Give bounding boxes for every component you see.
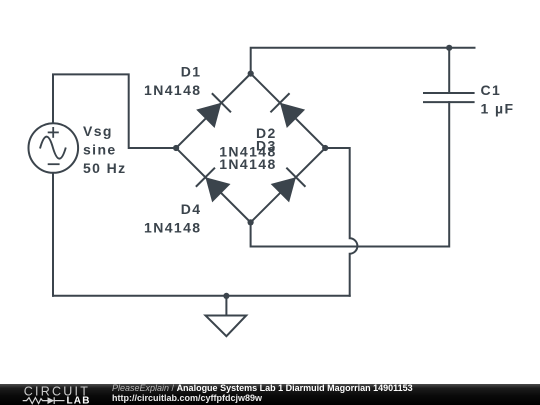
wire bottom rail [53, 295, 350, 297]
node top [248, 71, 254, 77]
svg-text:1N4148: 1N4148 [219, 156, 276, 172]
label Vsg value [83, 123, 127, 176]
ground [206, 296, 247, 336]
wire source top to left node [53, 74, 175, 148]
footer text line 2 [112, 394, 262, 403]
wire right node to bottom rail with hop [325, 148, 357, 296]
footer bar [0, 384, 540, 405]
svg-text:LAB: LAB [67, 396, 91, 405]
footer text line 1 [112, 384, 532, 393]
svg-text:C1: C1 [481, 82, 502, 98]
wire source bottom [52, 173, 54, 296]
node capacitor top [446, 45, 452, 51]
svg-text:D4: D4 [181, 201, 202, 217]
svg-text:1N4148: 1N4148 [144, 220, 201, 236]
wire top node to top rail [251, 48, 475, 74]
diode D3 [271, 168, 306, 203]
diode D4 [196, 168, 231, 203]
wire bridge arm bottom-left [176, 148, 251, 222]
diode D1 [196, 93, 231, 128]
capacitor C1 [423, 93, 475, 102]
label D1 [144, 63, 201, 98]
wire capacitor top lead [448, 48, 450, 93]
CircuitLab logo [0, 384, 110, 405]
voltage source Vsg [29, 123, 79, 173]
wire bridge arm top-right [251, 74, 326, 148]
wire bridge arm top-left [176, 74, 251, 148]
node right [322, 145, 328, 151]
node bottom [248, 219, 254, 225]
svg-text:1N4148: 1N4148 [144, 82, 201, 98]
svg-text:D1: D1 [181, 63, 202, 79]
svg-text:Vsg: Vsg [83, 123, 113, 139]
node left [173, 145, 179, 151]
label D2 [219, 125, 276, 160]
label D4 [144, 201, 201, 236]
svg-text:sine: sine [83, 141, 117, 157]
svg-text:1 µF: 1 µF [481, 101, 515, 117]
label D3 [219, 137, 276, 172]
diode D2 [270, 93, 305, 128]
wire bridge arm bottom-right [251, 148, 326, 222]
svg-text:50 Hz: 50 Hz [83, 160, 127, 176]
svg-text:D3: D3 [256, 137, 277, 153]
node ground [223, 293, 229, 299]
wire capacitor bottom lead to bottom bridge node [251, 102, 450, 246]
label C1 [481, 82, 515, 117]
